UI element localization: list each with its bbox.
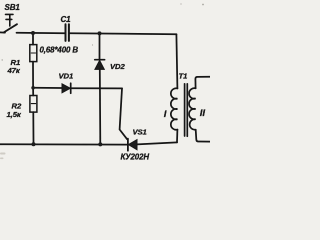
svg-text:0,68*400 В: 0,68*400 В — [40, 46, 79, 55]
wire T1 secondary top lead to right edge — [195, 77, 210, 89]
node junction top of R1 — [31, 31, 35, 35]
resistor R1 — [30, 45, 37, 62]
svg-text:КУ202Н: КУ202Н — [121, 153, 150, 162]
svg-text:47к: 47к — [7, 66, 21, 75]
svg-text:R2: R2 — [12, 102, 22, 111]
capacitor C1 — [66, 24, 69, 41]
wire C1 to top-right corner — [69, 32, 176, 35]
wire VD2 cathode to top wire — [99, 33, 101, 59]
resistor R2 — [30, 96, 37, 113]
node B junction R1 R2 VD1 — [31, 86, 35, 90]
wire T1 primary bottom lead — [176, 130, 178, 143]
thyristor VS1 — [128, 139, 137, 151]
transformer T1 winding I — [171, 88, 178, 130]
switch SB1 plunger — [6, 14, 14, 26]
wire R2 bottom lead — [32, 112, 34, 144]
transformer T1 core — [185, 84, 188, 137]
transformer T1 winding II — [189, 88, 196, 130]
svg-text:Т1: Т1 — [179, 71, 188, 80]
wire node B to VD1 anode — [33, 87, 62, 89]
wire R1 bottom to node B — [32, 62, 34, 88]
wire T1 secondary bottom lead to right edge — [196, 130, 210, 142]
wire R2 top lead — [32, 88, 34, 96]
svg-text:SB1: SB1 — [5, 3, 21, 12]
switch SB1 blade — [4, 24, 17, 32]
svg-text:C1: C1 — [61, 15, 72, 24]
wire right vertical to T1 primary — [176, 34, 177, 88]
wire VS1 anode to T1 primary bottom — [137, 142, 177, 144]
diode VD1 — [62, 83, 71, 93]
node junction top of VD2 — [98, 31, 102, 35]
svg-text:VD1: VD1 — [59, 72, 74, 81]
wire SB1 to C1 left plate — [17, 32, 66, 34]
wire VD1 cathode to gate corner — [71, 87, 122, 89]
wire VD2 anode down to bottom wire — [99, 69, 102, 144]
wire VS1 gate lead — [120, 88, 128, 139]
svg-text:VD2: VD2 — [110, 62, 125, 71]
scan speckles — [2, 3, 204, 60]
svg-text:I: I — [164, 109, 167, 120]
smudge bottom-left scan artifact — [0, 153, 6, 160]
svg-text:II: II — [200, 108, 206, 119]
node junction bottom of VD2 — [98, 142, 102, 146]
wire bottom common from mains to VS1 cathode — [0, 143, 128, 145]
node junction bottom of R2 — [32, 142, 36, 146]
svg-text:1,5к: 1,5к — [7, 110, 22, 119]
svg-text:VS1: VS1 — [133, 128, 147, 137]
diode VD2 — [95, 60, 105, 70]
wire R1 top lead — [32, 33, 34, 45]
wire top-left stub from mains to SB1 — [0, 31, 5, 33]
